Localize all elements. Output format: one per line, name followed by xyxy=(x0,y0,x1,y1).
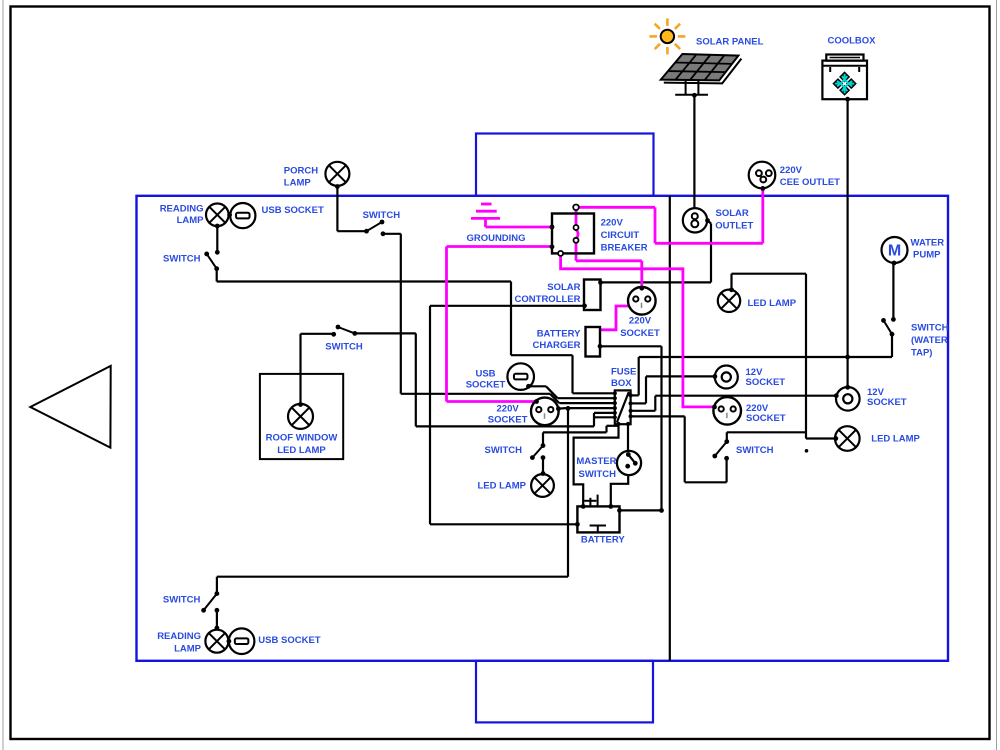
svg-text:USB SOCKET: USB SOCKET xyxy=(262,205,324,216)
svg-text:CHARGER: CHARGER xyxy=(532,340,580,351)
svg-text:GROUNDING: GROUNDING xyxy=(466,233,525,244)
svg-text:TAP): TAP) xyxy=(911,347,932,358)
svg-text:SWITCH: SWITCH xyxy=(485,445,523,456)
svg-text:BATTERY: BATTERY xyxy=(581,535,625,546)
svg-text:MASTER: MASTER xyxy=(576,456,616,467)
svg-text:(WATER: (WATER xyxy=(911,335,948,346)
svg-text:SWITCH: SWITCH xyxy=(363,210,401,221)
svg-text:READING: READING xyxy=(157,631,201,642)
svg-text:BATTERY: BATTERY xyxy=(537,329,581,340)
svg-text:SOLAR: SOLAR xyxy=(716,208,749,219)
svg-text:CONTROLLER: CONTROLLER xyxy=(515,294,581,305)
svg-text:220V: 220V xyxy=(497,403,520,414)
svg-text:SOCKET: SOCKET xyxy=(620,328,660,339)
svg-text:PORCH: PORCH xyxy=(284,165,318,176)
svg-text:220V: 220V xyxy=(601,218,624,229)
svg-text:SOCKET: SOCKET xyxy=(466,379,506,390)
svg-text:LED LAMP: LED LAMP xyxy=(748,298,797,309)
svg-text:PUMP: PUMP xyxy=(913,250,941,261)
svg-text:LAMP: LAMP xyxy=(174,644,202,655)
svg-text:SOCKET: SOCKET xyxy=(867,397,907,408)
svg-text:READING: READING xyxy=(160,204,204,215)
svg-text:CIRCUIT: CIRCUIT xyxy=(601,230,640,241)
svg-text:220V: 220V xyxy=(780,165,803,176)
svg-text:220V: 220V xyxy=(629,316,652,327)
svg-text:SOCKET: SOCKET xyxy=(488,414,528,425)
svg-text:LED LAMP: LED LAMP xyxy=(277,445,326,456)
svg-text:USB: USB xyxy=(475,368,495,379)
svg-text:BREAKER: BREAKER xyxy=(601,243,648,254)
svg-text:BOX: BOX xyxy=(611,378,632,389)
svg-text:SWITCH: SWITCH xyxy=(163,595,201,606)
svg-text:SOCKET: SOCKET xyxy=(746,377,786,388)
svg-text:COOLBOX: COOLBOX xyxy=(827,36,876,47)
svg-text:FUSE: FUSE xyxy=(611,366,636,377)
svg-text:USB SOCKET: USB SOCKET xyxy=(258,635,320,646)
svg-text:SOLAR PANEL: SOLAR PANEL xyxy=(696,37,764,48)
svg-text:SWITCH: SWITCH xyxy=(736,445,774,456)
svg-text:SOCKET: SOCKET xyxy=(746,413,786,424)
svg-text:OUTLET: OUTLET xyxy=(715,220,753,231)
svg-text:SWITCH: SWITCH xyxy=(579,469,617,480)
svg-text:WATER: WATER xyxy=(911,238,945,249)
svg-text:SWITCH: SWITCH xyxy=(325,342,363,353)
svg-text:SWITCH: SWITCH xyxy=(911,323,949,334)
svg-text:LAMP: LAMP xyxy=(177,215,205,226)
svg-text:CEE OUTLET: CEE OUTLET xyxy=(780,177,840,188)
svg-text:M: M xyxy=(888,243,901,260)
svg-text:SOLAR: SOLAR xyxy=(547,282,580,293)
svg-text:SWITCH: SWITCH xyxy=(163,254,201,265)
svg-text:LED LAMP: LED LAMP xyxy=(477,480,526,491)
svg-text:ROOF WINDOW: ROOF WINDOW xyxy=(266,433,338,444)
svg-text:LAMP: LAMP xyxy=(284,177,312,188)
svg-text:LED LAMP: LED LAMP xyxy=(871,433,920,444)
